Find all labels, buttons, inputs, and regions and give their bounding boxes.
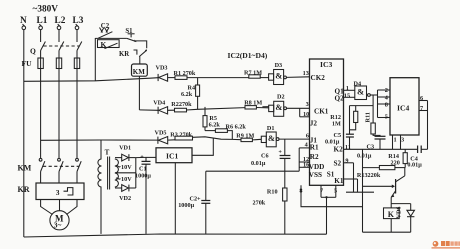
wire IC1 gnd to rail — [174, 163, 176, 234]
fuse FU L3 — [76, 58, 78, 69]
svg-text:S2: S2 — [334, 159, 342, 167]
wire L1 upper — [40, 30, 42, 42]
wire L3 mid — [76, 51, 78, 59]
contactor coil KM — [132, 64, 148, 76]
wire KR to KM coil — [139, 56, 141, 64]
svg-text:R2: R2 — [310, 153, 319, 161]
svg-text:IC4: IC4 — [397, 103, 409, 112]
svg-text:D3: D3 — [275, 62, 283, 69]
svg-text:13: 13 — [303, 70, 309, 77]
wire L3 upper — [76, 30, 78, 42]
svg-text:VD1: VD1 — [119, 145, 131, 152]
svg-text:~380V: ~380V — [33, 5, 59, 15]
contact K release arrows — [100, 28, 103, 33]
svg-text:7: 7 — [420, 105, 423, 112]
svg-text:10V: 10V — [121, 164, 132, 171]
motor M — [50, 211, 69, 230]
wire D3 out to IC3 pin13 — [286, 76, 309, 79]
svg-text:&: & — [275, 70, 282, 80]
wire IC4 right down — [427, 101, 429, 150]
svg-text:0.01μ: 0.01μ — [325, 139, 340, 146]
svg-text:J2: J2 — [310, 119, 318, 127]
svg-text:+: + — [278, 149, 282, 156]
svg-text:8: 8 — [385, 101, 388, 108]
svg-text:K2: K2 — [334, 146, 344, 154]
svg-text:L1: L1 — [37, 16, 48, 26]
svg-text:1000μ: 1000μ — [135, 173, 151, 180]
wire VDD rail to IC3 pin16 — [206, 170, 299, 172]
wire to IC4 pin5 — [378, 117, 391, 119]
svg-text:1M: 1M — [332, 121, 341, 128]
relay contact K box — [98, 40, 120, 48]
svg-text:3: 3 — [401, 137, 404, 144]
svg-text:6.2k: 6.2k — [209, 122, 221, 129]
contact K lower blade — [105, 43, 118, 48]
fuse FU L1 — [40, 58, 42, 69]
svg-text:D1: D1 — [267, 125, 275, 132]
wire K to S1 — [95, 37, 127, 39]
svg-text:Q2: Q2 — [335, 95, 345, 103]
svg-text:5: 5 — [385, 113, 388, 120]
svg-text:K: K — [388, 210, 395, 219]
wire L2 to KM contact — [58, 69, 60, 159]
svg-text:K1: K1 — [334, 177, 344, 185]
wire L1 mid — [40, 51, 42, 59]
svg-text:7: 7 — [320, 188, 323, 195]
svg-text:R11: R11 — [365, 112, 372, 122]
svg-text:1: 1 — [394, 137, 397, 144]
wire L1 feed / wire139 long rail — [41, 139, 158, 141]
timer IC4 — [390, 78, 419, 135]
wire IC3 Q1 to D4 — [344, 89, 355, 91]
svg-text:10V: 10V — [121, 176, 132, 183]
wire D4 out — [370, 94, 377, 96]
svg-text:R13220k: R13220k — [357, 172, 381, 179]
wire IC3 pins 4,12 tie — [299, 147, 309, 149]
wire L3 to KM contact — [76, 69, 78, 159]
svg-text:KM: KM — [18, 163, 32, 172]
wire S1 to KR — [136, 41, 147, 48]
wire KM node down to wire2 — [138, 80, 140, 110]
svg-text:IC3: IC3 — [320, 60, 332, 69]
svg-text:KM: KM — [133, 68, 145, 76]
transistor V1 — [363, 185, 395, 187]
wire pins 7-5 tie — [321, 196, 336, 198]
svg-text:D2: D2 — [277, 94, 285, 101]
wire KM coil to rail1 — [138, 76, 140, 79]
wire D2 out to IC3 pins 3,10 — [287, 107, 310, 109]
wire L2 mid — [58, 51, 60, 59]
svg-text:0.01μ: 0.01μ — [251, 160, 266, 167]
wire N rail vertical — [23, 30, 25, 237]
svg-text:1000μ: 1000μ — [178, 202, 194, 209]
wire K-branch vertical — [94, 38, 96, 81]
svg-text:R10: R10 — [267, 189, 278, 196]
svg-text:R2270k: R2270k — [171, 101, 192, 108]
svg-text:VD2: VD2 — [119, 195, 131, 202]
wire IC3 Q2 to D4 — [344, 96, 355, 98]
contact K blade — [98, 32, 112, 39]
svg-text:IC2(D1~D4): IC2(D1~D4) — [228, 51, 268, 60]
wire pin7 node to bottom rail — [326, 197, 328, 234]
fuse FU L2 — [58, 58, 60, 69]
wire to IC4 pin2 — [378, 89, 391, 91]
IC3 counter — [310, 59, 344, 185]
svg-text:FU: FU — [22, 59, 33, 68]
svg-text:C6: C6 — [261, 153, 269, 160]
svg-text:R3 270k: R3 270k — [170, 132, 192, 139]
svg-text:+: + — [140, 153, 144, 160]
svg-text:1: 1 — [346, 85, 349, 92]
svg-text:3: 3 — [56, 188, 60, 197]
wire relay bottom — [363, 231, 411, 233]
svg-text:T: T — [105, 149, 110, 157]
svg-text:6.2k: 6.2k — [181, 91, 193, 98]
svg-text:0.01μ: 0.01μ — [357, 152, 372, 159]
svg-text:&: & — [357, 87, 364, 97]
svg-text:VD3: VD3 — [156, 65, 168, 72]
wire rectifier node — [135, 158, 137, 188]
svg-text:3~: 3~ — [54, 221, 62, 230]
svg-text:VSS: VSS — [309, 171, 322, 179]
svg-text:VD4: VD4 — [153, 100, 165, 107]
svg-text:VD5: VD5 — [155, 129, 167, 136]
wire to IC4 pin4 — [378, 96, 391, 98]
svg-text:L3: L3 — [73, 16, 84, 26]
svg-text:L2: L2 — [55, 16, 66, 26]
svg-text:Q: Q — [30, 47, 36, 56]
svg-text:VD6: VD6 — [396, 206, 403, 218]
IC3 K1 wire — [344, 178, 358, 180]
wire L1 to KM contact — [40, 69, 42, 159]
svg-text:270k: 270k — [253, 200, 266, 207]
wire relay branch vertical — [362, 149, 364, 232]
wire lower tie — [346, 191, 374, 193]
svg-text:KR: KR — [18, 185, 30, 194]
svg-text:KR: KR — [119, 51, 129, 58]
secondary taps — [115, 157, 122, 159]
svg-text:K: K — [101, 40, 107, 49]
svg-text:3: 3 — [306, 101, 309, 108]
svg-text:&: & — [275, 102, 282, 112]
svg-text:10: 10 — [303, 111, 309, 118]
wires KR to motor — [41, 200, 53, 215]
svg-text:R1: R1 — [310, 143, 319, 151]
wire2 middle rail — [139, 109, 158, 111]
svg-text:&: & — [268, 133, 275, 143]
svg-text:6: 6 — [306, 132, 309, 139]
svg-text:9: 9 — [345, 157, 348, 164]
svg-text:C1: C1 — [139, 166, 147, 173]
svg-text:0.01μ: 0.01μ — [407, 162, 422, 169]
svg-text:VDD: VDD — [309, 163, 325, 171]
svg-text:CK2: CK2 — [311, 74, 326, 82]
relay coil K — [390, 204, 392, 208]
wire relay top — [391, 203, 411, 205]
wire IC1 out up to wire139 — [192, 138, 213, 155]
wire bottom rail — [24, 234, 327, 237]
svg-text:15: 15 — [344, 93, 350, 100]
wire L2 upper — [58, 30, 60, 42]
wire control rail top (rail1) — [24, 78, 158, 82]
regulator IC1 — [156, 148, 192, 163]
svg-text:R6 6.2k: R6 6.2k — [226, 123, 247, 130]
wire to IC4 pin8 — [378, 103, 391, 105]
watermark logo — [432, 241, 460, 249]
svg-text:2: 2 — [385, 87, 388, 94]
wire D1 out to IC3 pin6 — [279, 138, 310, 140]
svg-text:IC1: IC1 — [166, 152, 178, 161]
svg-text:CK1: CK1 — [314, 108, 329, 116]
